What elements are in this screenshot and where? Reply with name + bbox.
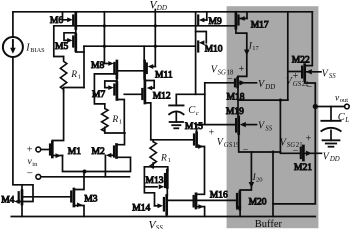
wire M12 source down bbox=[145, 103, 151, 140]
label VGS19 bbox=[209, 127, 249, 155]
transistor M19 bbox=[226, 107, 246, 133]
svg-text:M18: M18 bbox=[227, 93, 245, 103]
wire M15 source path bbox=[196, 147, 205, 195]
wire M21 gate feed bbox=[280, 100, 300, 153]
svg-text:+: + bbox=[27, 145, 33, 156]
label VDD top bbox=[150, 0, 167, 12]
buffer shaded region bbox=[227, 6, 319, 228]
wire IBIAS branch bbox=[13, 12, 33, 202]
wire vout lead bbox=[315, 106, 344, 108]
svg-text:M2: M2 bbox=[92, 147, 105, 157]
transistor M5 bbox=[55, 33, 76, 52]
input terminal vin minus bbox=[36, 174, 41, 179]
svg-text:R: R bbox=[70, 70, 77, 80]
wire bus3 bbox=[84, 45, 196, 47]
transistor M22 bbox=[292, 56, 312, 81]
wire M13 gate lead bbox=[144, 186, 157, 188]
wire M21 ann bbox=[305, 152, 322, 154]
wire vin+ lead bbox=[41, 149, 49, 151]
wire I20 branch bbox=[240, 152, 251, 192]
wire M17 source to I17 bbox=[236, 28, 247, 78]
wire M16 M20 gate line bbox=[167, 199, 237, 201]
svg-text:M20: M20 bbox=[249, 197, 267, 207]
label vin bbox=[27, 145, 38, 180]
wire tail node bbox=[63, 156, 131, 172]
wire M14 source bbox=[166, 214, 168, 217]
svg-text:M6: M6 bbox=[50, 16, 63, 26]
wire M13 M14 column bbox=[166, 188, 168, 196]
junction at bus2 and M11 gate line bbox=[154, 24, 157, 27]
wire M3 M4 gate bus bbox=[22, 196, 70, 198]
I20 current arrow bbox=[249, 182, 255, 188]
transistor M16 bbox=[194, 191, 228, 210]
wire M12 gate lead horiz bbox=[124, 93, 141, 95]
wire M22 ann bbox=[306, 71, 321, 73]
svg-text:SS: SS bbox=[265, 125, 272, 132]
wire M22 source to output bbox=[273, 80, 315, 203]
transistor M17 bbox=[236, 12, 269, 30]
svg-text:L: L bbox=[344, 116, 349, 124]
svg-text:M8: M8 bbox=[91, 61, 104, 71]
wire M4 drain bbox=[21, 185, 23, 191]
wire M20 source bbox=[239, 209, 241, 216]
transistor M15 bbox=[185, 122, 204, 149]
label CL bbox=[338, 112, 350, 124]
svg-text:M10: M10 bbox=[205, 45, 223, 55]
label VGS22 bbox=[286, 71, 313, 93]
label VSS at M19 bbox=[258, 121, 273, 133]
wire R1c top bbox=[152, 140, 154, 142]
svg-text:DD: DD bbox=[264, 84, 275, 91]
capacitor Cc bbox=[169, 105, 183, 114]
svg-text:GS: GS bbox=[224, 142, 233, 149]
svg-text:20: 20 bbox=[256, 177, 263, 184]
wire vin- line bbox=[41, 176, 129, 178]
wire M6 M5 column bbox=[75, 29, 77, 35]
svg-text:M22: M22 bbox=[292, 56, 310, 66]
svg-text:M12: M12 bbox=[153, 91, 171, 101]
label VSG21 bbox=[280, 134, 312, 157]
ground under Cc bbox=[170, 122, 183, 128]
wire CL lead bbox=[330, 107, 332, 121]
svg-text:M16: M16 bbox=[210, 191, 228, 201]
transistor M9 bbox=[198, 16, 222, 27]
capacitor CL bbox=[321, 121, 340, 131]
transistor M13 bbox=[146, 170, 168, 189]
transistor M10 bbox=[198, 40, 223, 54]
svg-text:M13: M13 bbox=[146, 176, 164, 186]
wire M7 source jog bbox=[117, 100, 124, 134]
svg-text:Buffer: Buffer bbox=[255, 219, 283, 229]
wire M18 source column bbox=[237, 87, 239, 117]
wire M7 loop left bbox=[94, 74, 117, 104]
resistor R1 first bbox=[60, 57, 66, 92]
svg-text:−: − bbox=[27, 168, 33, 180]
wire M13 drain link bbox=[144, 163, 167, 170]
wire buffer left return bbox=[272, 152, 274, 217]
ground under CL bbox=[323, 140, 340, 146]
svg-text:+: + bbox=[293, 71, 299, 82]
transistor M4 bbox=[1, 191, 22, 206]
label VSS at M22 bbox=[322, 68, 337, 80]
svg-text:R: R bbox=[160, 153, 167, 163]
label Buffer bbox=[255, 219, 283, 230]
wire M22 drain bbox=[305, 12, 313, 66]
svg-text:M7: M7 bbox=[92, 90, 105, 100]
label I20 bbox=[252, 173, 263, 184]
wire buffer mid node bbox=[238, 99, 288, 101]
wire M19 source row bbox=[239, 134, 281, 152]
label IBIAS bbox=[25, 43, 45, 54]
wire M8 source bus to M11 bbox=[117, 70, 144, 72]
junction at bus2 and M8 gate line bbox=[103, 24, 106, 27]
transistor M21 bbox=[294, 146, 312, 173]
svg-text:SS: SS bbox=[329, 73, 336, 80]
svg-text:M15: M15 bbox=[185, 122, 203, 132]
label R1 first bbox=[70, 70, 81, 81]
wire vertical x104 rail to M8 gate bbox=[103, 12, 105, 64]
label R1 third bbox=[160, 153, 171, 164]
label Cc bbox=[188, 105, 199, 117]
transistor M14 bbox=[132, 196, 166, 215]
wire M16 source bbox=[196, 207, 205, 217]
label VSS bottom bbox=[149, 220, 164, 232]
svg-text:SS: SS bbox=[156, 224, 164, 229]
wire output column M9 M10 M15 bbox=[195, 12, 197, 94]
wire M11 M12 column bbox=[143, 78, 145, 81]
svg-text:M19: M19 bbox=[226, 107, 244, 117]
wire Cc top lead bbox=[176, 94, 205, 105]
svg-text:+: + bbox=[306, 134, 312, 145]
wire VSS rail bbox=[11, 216, 315, 218]
label VDD at M18 bbox=[258, 79, 275, 91]
transistor M6 bbox=[50, 12, 76, 29]
svg-text:DD: DD bbox=[329, 156, 340, 163]
label VDD at M21 bbox=[323, 151, 340, 163]
transistor M12 bbox=[142, 81, 171, 104]
svg-text:1: 1 bbox=[119, 119, 122, 126]
svg-text:M1: M1 bbox=[68, 147, 81, 157]
resistor R1 third bbox=[150, 142, 156, 168]
wire M5 source column bbox=[83, 46, 85, 87]
input terminal vin plus bbox=[36, 147, 41, 152]
transistor M3 bbox=[71, 189, 98, 207]
transistor M2 bbox=[92, 145, 117, 158]
svg-text:in: in bbox=[32, 161, 38, 168]
svg-text:−: − bbox=[227, 74, 233, 85]
wire M22 gate lead bbox=[288, 71, 301, 73]
svg-text:+: + bbox=[209, 127, 215, 138]
current source IBIAS bbox=[3, 37, 23, 57]
transistor M8 bbox=[91, 61, 117, 78]
wire vertical x155 rail to M11 gate bbox=[154, 12, 156, 67]
junction on M19 source row bbox=[272, 151, 275, 154]
transistor M20 bbox=[236, 192, 267, 210]
svg-text:M9: M9 bbox=[209, 17, 222, 27]
wire M13 loop bbox=[144, 167, 154, 206]
transistor M18 bbox=[227, 78, 246, 102]
svg-text:−: − bbox=[293, 146, 299, 157]
transistor M1 bbox=[50, 142, 81, 158]
wire M3 source bbox=[74, 206, 84, 217]
wire R1b bottom bbox=[105, 127, 125, 133]
svg-text:BIAS: BIAS bbox=[30, 47, 45, 54]
svg-text:M4: M4 bbox=[1, 195, 14, 205]
svg-text:M5: M5 bbox=[55, 42, 68, 52]
svg-text:M11: M11 bbox=[155, 70, 173, 80]
label I17 bbox=[248, 41, 260, 52]
wire M18 gate lead bbox=[205, 82, 235, 84]
wire bus2 gate bus bbox=[54, 25, 236, 27]
svg-text:out: out bbox=[340, 97, 349, 104]
wire bus2 left corner down bbox=[54, 26, 64, 57]
svg-text:M21: M21 bbox=[294, 163, 312, 173]
wire M8 M7 column bbox=[116, 77, 118, 83]
svg-text:SG: SG bbox=[218, 69, 226, 76]
wire M22 gate feed bbox=[287, 12, 289, 100]
wire M4 source bbox=[21, 204, 23, 217]
wire M3 drain bbox=[74, 172, 84, 190]
node tail junction dot bbox=[83, 170, 87, 174]
wire M2 drain link bbox=[117, 133, 125, 145]
transistor M7 bbox=[92, 81, 117, 100]
wire M17 gate tap bbox=[239, 12, 247, 18]
wire M19 ann bbox=[244, 124, 256, 126]
junction hop on buffer mid node bbox=[279, 99, 282, 102]
wire M2 gate corner bbox=[104, 155, 106, 177]
node vout junction dot bbox=[313, 104, 318, 109]
wire CL bottom lead bbox=[330, 130, 332, 140]
wire M18 drain ann bbox=[238, 82, 256, 84]
svg-text:DD: DD bbox=[156, 4, 167, 12]
junction at bus3 and M11 gate line bbox=[154, 45, 157, 48]
wire VDD top rail bbox=[13, 11, 312, 13]
wire M11 drain to bus3 bbox=[143, 46, 145, 61]
wire VDD label stem bbox=[154, 10, 156, 12]
resistor R1 second bbox=[102, 104, 108, 131]
svg-text:M14: M14 bbox=[132, 204, 150, 214]
wire M13 bias row bbox=[151, 139, 194, 141]
svg-text:1: 1 bbox=[168, 157, 171, 164]
wire buffer feed vertical bbox=[204, 83, 206, 125]
svg-text:M3: M3 bbox=[84, 195, 97, 205]
wire R1a bottom to M1 drain bbox=[52, 88, 84, 141]
I17 current arrow bbox=[244, 50, 250, 56]
wire M9 gate tap bbox=[206, 12, 208, 20]
wire M19 gate lead bbox=[197, 125, 236, 133]
svg-text:19: 19 bbox=[233, 142, 240, 149]
label R1 second bbox=[111, 115, 122, 126]
label VSG18 bbox=[211, 64, 245, 85]
svg-text:+: + bbox=[239, 64, 245, 75]
svg-text:−: − bbox=[306, 82, 312, 93]
output terminal vout bbox=[345, 104, 350, 109]
wire Cc bottom lead bbox=[175, 113, 177, 122]
label vout bbox=[335, 93, 348, 104]
svg-text:−: − bbox=[243, 145, 249, 156]
junction at bus3 and M8 gate line bbox=[103, 45, 106, 48]
wire M5 source jog bbox=[76, 51, 84, 53]
transistor M11 bbox=[145, 61, 173, 80]
svg-text:17: 17 bbox=[252, 45, 259, 52]
svg-text:1: 1 bbox=[78, 74, 81, 81]
svg-text:M17: M17 bbox=[251, 21, 269, 31]
svg-text:c: c bbox=[196, 110, 199, 117]
wire M10 gate link bbox=[196, 32, 207, 43]
svg-text:R: R bbox=[111, 115, 118, 125]
